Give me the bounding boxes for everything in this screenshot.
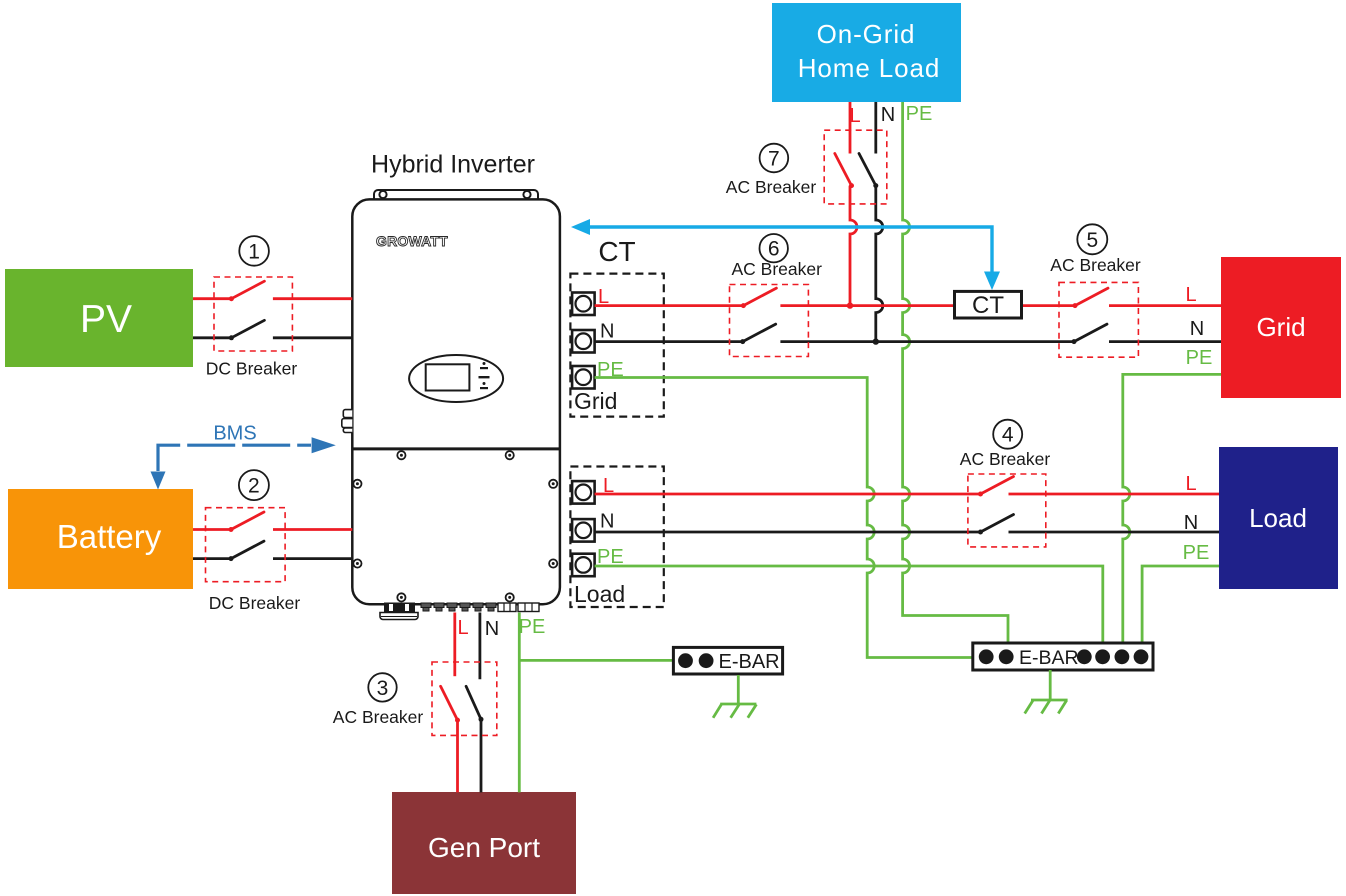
E-BAR left box xyxy=(673,647,782,674)
inverter left side tabs xyxy=(342,410,353,433)
wire breaker 5 to Grid box L xyxy=(1109,304,1221,307)
BMS dashed communication arrow xyxy=(151,423,336,490)
wire inverter Load L to breaker 4 xyxy=(595,493,981,496)
svg-text:L: L xyxy=(849,105,860,127)
wire inverter GEN N down to breaker 3 xyxy=(478,613,481,680)
breaker 7 dashed box xyxy=(824,130,887,204)
svg-text:AC Breaker: AC Breaker xyxy=(1050,255,1141,275)
wire inverter Grid PE to E-BAR right xyxy=(595,378,973,658)
wire inverter GEN L down to breaker 3 xyxy=(453,613,456,677)
svg-text:L: L xyxy=(457,617,468,639)
breaker 6 N switch blade xyxy=(740,324,776,344)
breaker 6 L switch blade xyxy=(741,288,777,308)
svg-text:3: 3 xyxy=(377,677,389,700)
ground right xyxy=(1025,670,1068,714)
svg-text:PV: PV xyxy=(80,298,132,341)
Load port terminal L xyxy=(572,481,595,504)
svg-text:GROWATT: GROWATT xyxy=(376,233,448,249)
svg-text:1: 1 xyxy=(248,240,260,263)
Load box xyxy=(1219,447,1338,589)
Load port dashed box xyxy=(570,467,663,608)
svg-text:N: N xyxy=(1190,318,1204,340)
On-Grid Home Load box xyxy=(772,3,961,102)
wire Battery + to breaker 2 xyxy=(193,528,231,531)
breaker 7 L switch blade xyxy=(835,154,854,189)
svg-text:PE: PE xyxy=(1183,542,1210,564)
breaker 1 L switch blade xyxy=(229,281,265,301)
svg-text:Grid: Grid xyxy=(1256,312,1305,342)
svg-text:PE: PE xyxy=(1186,347,1213,369)
inverter bottom multipin connectors xyxy=(498,603,539,612)
junction node N bus / Home Load N xyxy=(873,338,879,344)
inverter bottom cable gland xyxy=(380,603,418,620)
Grid port terminal L xyxy=(572,293,595,316)
wire breaker 7 N output down to N bus junction xyxy=(876,186,883,342)
inverter display panel xyxy=(409,355,503,402)
breaker 2 L switch blade xyxy=(229,512,265,532)
wire breaker 1 to inverter PV- xyxy=(273,336,352,339)
breaker 4 L switch blade xyxy=(978,477,1014,497)
wire Home Load L down to breaker 7 xyxy=(849,102,852,154)
breaker 5 N switch blade xyxy=(1072,324,1108,344)
inverter U1 body xyxy=(352,199,560,604)
svg-text:AC Breaker: AC Breaker xyxy=(731,259,822,279)
CT box xyxy=(955,291,1022,319)
svg-text:AC Breaker: AC Breaker xyxy=(726,177,817,197)
svg-text:On-Grid: On-Grid xyxy=(817,19,916,49)
Grid port terminal PE xyxy=(572,366,595,389)
wire breaker 2 to inverter BAT- xyxy=(273,557,352,560)
breaker 2 N switch blade xyxy=(229,541,265,561)
Grid port dashed box xyxy=(570,274,663,417)
wire inverter Grid L to breaker 6 xyxy=(595,304,744,307)
wire inverter GEN PE down to Gen Port xyxy=(518,613,521,793)
E-BAR right box xyxy=(973,643,1153,670)
breaker 3 number xyxy=(368,673,396,701)
inverter bottom connector ribs xyxy=(421,603,496,611)
breaker 5 number xyxy=(1077,224,1107,254)
breaker 5 dashed box xyxy=(1059,282,1138,357)
breaker 1 number xyxy=(239,236,269,266)
breaker 5 L switch blade xyxy=(1073,288,1109,308)
wire breaker 7 L output down to L bus junction xyxy=(850,186,857,306)
svg-text:7: 7 xyxy=(768,148,780,171)
breaker 4 number xyxy=(993,420,1022,449)
wire PV L- to breaker 1 xyxy=(193,336,231,339)
svg-text:N: N xyxy=(600,511,614,533)
breaker 6 number xyxy=(760,234,788,262)
breaker 2 number xyxy=(239,470,269,500)
Grid utility box xyxy=(1221,257,1341,398)
inverter top mounting bracket xyxy=(374,190,538,200)
svg-text:Grid: Grid xyxy=(574,388,617,414)
ground left xyxy=(713,675,756,718)
CT sensing line (cyan) xyxy=(571,219,1000,290)
svg-text:Load: Load xyxy=(574,581,625,607)
wire inverter Grid N to breaker 6 xyxy=(595,340,743,343)
PV source box xyxy=(5,269,193,367)
inverter section divider xyxy=(352,447,560,450)
svg-text:L: L xyxy=(1185,473,1196,495)
Load port terminal PE xyxy=(572,554,595,577)
svg-text:PE: PE xyxy=(906,103,933,125)
breaker 1 dashed box xyxy=(214,277,292,351)
Gen Port box xyxy=(392,792,576,894)
svg-text:Battery: Battery xyxy=(57,518,162,555)
svg-text:DC Breaker: DC Breaker xyxy=(206,359,298,379)
wire breaker 2 to inverter BAT+ xyxy=(273,528,352,531)
svg-text:Home Load: Home Load xyxy=(798,53,941,83)
wire Home Load PE down to E-BAR xyxy=(903,102,1008,644)
svg-text:Hybrid Inverter: Hybrid Inverter xyxy=(371,151,535,179)
svg-text:N: N xyxy=(600,321,614,343)
wire breaker 4 to Load box N xyxy=(1009,531,1220,534)
breaker 4 dashed box xyxy=(968,474,1046,547)
breaker 6 dashed box xyxy=(730,285,809,357)
svg-text:2: 2 xyxy=(248,475,260,498)
svg-text:PE: PE xyxy=(519,616,546,638)
inverter screws xyxy=(353,451,557,601)
svg-text:L: L xyxy=(1185,284,1196,306)
breaker 3 L switch blade xyxy=(441,686,460,722)
svg-text:N: N xyxy=(1184,512,1198,534)
svg-text:5: 5 xyxy=(1086,229,1098,252)
wire breaker 4 to Load box L xyxy=(1009,493,1220,496)
wire Load box PE down to E-BAR xyxy=(1142,566,1219,644)
junction node L bus / Home Load L xyxy=(847,302,853,308)
Grid port terminal N xyxy=(572,330,595,353)
svg-text:CT: CT xyxy=(972,292,1004,319)
wire Grid box PE down to E-BAR xyxy=(1123,374,1221,644)
Battery box xyxy=(8,489,193,589)
display buttons xyxy=(479,362,490,389)
svg-text:Gen Port: Gen Port xyxy=(428,832,540,863)
breaker 3 N switch blade xyxy=(466,686,483,722)
svg-text:AC Breaker: AC Breaker xyxy=(333,707,424,727)
breaker 4 N switch blade xyxy=(978,515,1014,535)
wire breaker 3 N to Gen Port xyxy=(480,719,483,792)
wire breaker 6 N to breaker 5 (N bus) xyxy=(780,340,1074,343)
breaker 2 dashed box xyxy=(206,508,286,582)
breaker 3 dashed box xyxy=(432,662,497,735)
breaker 7 number xyxy=(760,144,789,173)
wire Battery - to breaker 2 xyxy=(193,557,231,560)
svg-text:N: N xyxy=(485,618,499,640)
wire breaker 6 to CT box (L bus) xyxy=(780,304,954,307)
wire PE branch to left E-BAR xyxy=(519,659,673,662)
svg-text:Load: Load xyxy=(1249,503,1307,533)
svg-text:4: 4 xyxy=(1002,424,1014,447)
wire CT box to breaker 5 xyxy=(1021,304,1075,307)
svg-text:6: 6 xyxy=(768,238,780,261)
svg-text:BMS: BMS xyxy=(213,423,256,445)
wire breaker 3 L to Gen Port xyxy=(456,720,459,792)
wire inverter Load PE down to E-BAR right xyxy=(595,566,1103,644)
svg-text:CT: CT xyxy=(598,236,635,267)
svg-text:N: N xyxy=(881,104,895,126)
breaker 7 N switch blade xyxy=(859,154,878,189)
svg-text:E-BAR: E-BAR xyxy=(1019,647,1079,669)
breaker 1 N switch blade xyxy=(229,320,265,340)
wire inverter Load N to breaker 4 xyxy=(595,531,981,534)
Load port terminal N xyxy=(572,519,595,542)
wire breaker 1 to inverter PV+ xyxy=(273,297,352,300)
wire PV L+ to breaker 1 xyxy=(193,297,231,300)
wire breaker 5 to Grid box N xyxy=(1109,340,1221,343)
svg-text:AC Breaker: AC Breaker xyxy=(960,449,1051,469)
wire Home Load N down to breaker 7 xyxy=(874,102,877,154)
svg-text:DC Breaker: DC Breaker xyxy=(209,593,301,613)
svg-text:E-BAR: E-BAR xyxy=(719,651,780,673)
